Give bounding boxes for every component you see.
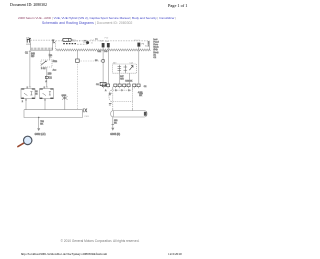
label between relays <box>22 87 46 103</box>
connector row: terminal 6 <box>127 84 130 87</box>
ignition switch S1 (dashed box with blade) <box>41 60 58 72</box>
instrument panel fuse block strip (dashed top + sawtooth bottom) <box>56 41 151 51</box>
wire from fuse block via splice box S1, dotted run to ground bus <box>76 51 80 110</box>
relay K2 box <box>40 89 54 99</box>
svg-text:Coil: Coil <box>129 63 133 65</box>
svg-text:Acc: Acc <box>53 69 58 72</box>
svg-text:G305 (R): G305 (R) <box>110 133 120 136</box>
ground bar G305 (pill box) <box>111 111 147 117</box>
right wire from fuse F4 <box>138 47 140 84</box>
svg-text:Hrns): Hrns) <box>153 51 158 54</box>
connector row: terminal 5 <box>123 84 126 87</box>
print header: page number <box>168 3 187 8</box>
wire: relay K2 to ground bus <box>44 99 46 110</box>
connector row: terminal 2 <box>107 84 110 87</box>
svg-text:548 BK: 548 BK <box>125 80 132 82</box>
connector row: terminal 8 <box>137 84 140 87</box>
fuse F2 symbol <box>77 40 87 43</box>
svg-text:10A: 10A <box>145 45 149 48</box>
svg-text:F10: F10 <box>105 37 109 39</box>
connector row: terminal 1 <box>102 84 105 87</box>
ground G302 drop <box>35 117 46 136</box>
svg-text:OG: OG <box>104 51 108 53</box>
print footer URL <box>21 252 107 256</box>
wire transponder pin A <box>119 73 124 84</box>
ground G305 drop <box>110 117 120 136</box>
svg-text:BK: BK <box>40 123 43 125</box>
print footer date <box>168 252 182 256</box>
fuse F7 symbol and label <box>26 38 31 44</box>
svg-text:A: A <box>45 80 47 83</box>
connector row: terminal 7 <box>133 84 136 87</box>
svg-text:Run: Run <box>53 61 58 63</box>
wire L to ground bar <box>109 87 113 111</box>
pin label at box A right corner <box>52 40 55 43</box>
wire M1 from fuse F9 with splice and connector C1 <box>95 47 108 86</box>
relay K3 on fuse block (rounded box) and pin dashes <box>63 38 88 44</box>
svg-text:2: 2 <box>22 101 24 103</box>
svg-text:Ant: Ant <box>113 62 117 65</box>
wire: ignition switch to relay K2, with in-line connector <box>45 67 52 87</box>
svg-text:85: 85 <box>35 94 38 96</box>
svg-text:B 12: B 12 <box>41 68 46 70</box>
svg-text:86: 86 <box>35 91 38 93</box>
ground bus (bottom loop) <box>24 110 82 118</box>
svg-text:341: 341 <box>98 51 102 53</box>
breadcrumb line 1 <box>18 16 176 20</box>
ground bus (top) <box>24 109 83 111</box>
wire M2 from fuse F10 to connector row <box>107 47 109 84</box>
svg-text:C305: C305 <box>84 116 90 118</box>
tick row <box>31 48 52 50</box>
breadcrumb line 2 <box>42 21 132 25</box>
connector pin stubs <box>104 87 139 89</box>
svg-text:A: A <box>105 89 107 92</box>
svg-text:BK: BK <box>114 122 117 124</box>
underhood fuse block box A (dashed strip) <box>30 40 52 50</box>
wire R to ground bar <box>133 87 144 111</box>
svg-text:G302 (LF): G302 (LF) <box>35 133 46 136</box>
svg-text:15: 15 <box>91 42 94 44</box>
wire: fuse block to ignition switch <box>49 50 53 60</box>
magnifier icon <box>18 136 32 146</box>
svg-text:C2: C2 <box>144 86 147 88</box>
component name text column (right) <box>153 38 159 59</box>
relay K1 box <box>21 89 35 99</box>
node C305 (bus termination) <box>83 108 90 118</box>
wire transponder pin B <box>125 73 132 84</box>
svg-text:C2: C2 <box>153 57 157 59</box>
svg-text:Instr: Instr <box>153 38 157 41</box>
svg-text:S306: S306 <box>62 95 68 97</box>
svg-text:C2: C2 <box>49 77 53 79</box>
wire: fuse block to relay K1 <box>25 50 36 87</box>
theft deterrent transponder box (dashed) <box>113 62 137 74</box>
svg-text:C1: C1 <box>96 84 100 86</box>
svg-text:C1: C1 <box>25 52 29 54</box>
svg-text:10A: 10A <box>105 40 109 43</box>
footer copyright <box>0 239 200 243</box>
circuit breaker symbol <box>86 41 89 44</box>
print header: Document ID <box>10 3 47 7</box>
svg-text:Sw: Sw <box>49 57 52 59</box>
svg-text:RD: RD <box>31 56 35 58</box>
svg-text:30: 30 <box>95 60 98 62</box>
svg-text:BK: BK <box>139 95 142 97</box>
splice S306 symbol <box>62 95 68 110</box>
connector row: terminal 3 <box>114 84 117 87</box>
svg-text:WH: WH <box>120 78 124 80</box>
connector row: terminal 4 <box>118 84 121 87</box>
connector C2 label cluster <box>91 40 95 45</box>
shielded pair (dashed shield outline) <box>109 90 133 101</box>
dotted jumper to splice on main wire <box>80 60 102 62</box>
wire: relay K1 to ground bus <box>25 99 27 110</box>
svg-text:F9: F9 <box>95 39 98 41</box>
fuse F4 in fuse block with labels <box>134 40 150 48</box>
pin labels under connector row <box>105 86 147 94</box>
svg-text:239: 239 <box>48 73 53 75</box>
fuses F9 and F10 in fuse block <box>95 37 110 47</box>
wiring diagram svg <box>0 0 200 259</box>
